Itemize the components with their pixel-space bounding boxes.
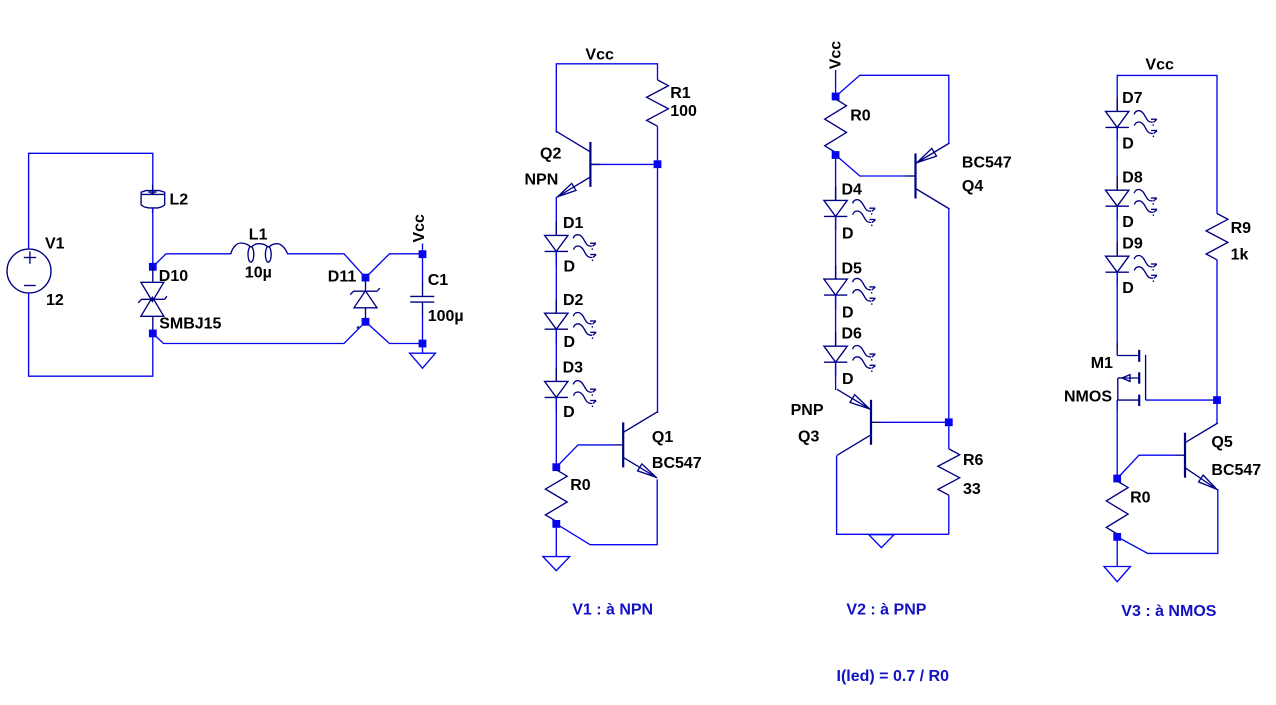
svg-text:Vcc: Vcc bbox=[411, 214, 428, 243]
svg-text:V1 : à NPN: V1 : à NPN bbox=[572, 601, 653, 618]
resistor R6 bbox=[938, 449, 960, 495]
svg-text:Vcc: Vcc bbox=[828, 41, 845, 70]
wire D4 to D5 bbox=[835, 216, 837, 279]
svg-text:D: D bbox=[564, 259, 576, 276]
svg-text:100: 100 bbox=[670, 103, 697, 120]
svg-text:R1: R1 bbox=[670, 85, 691, 102]
svg-text:D6: D6 bbox=[842, 326, 863, 343]
wire D11 bottom node to C1 bottom node bbox=[366, 322, 423, 344]
wire Q3 base to R6 node bbox=[881, 421, 949, 423]
svg-text:D3: D3 bbox=[563, 360, 584, 377]
wire Q5 emitter to bottom rail bbox=[1117, 489, 1218, 553]
wire D6 to Q3 emitter bbox=[835, 362, 837, 390]
wire Vcc node to Q4 emitter bbox=[836, 75, 949, 143]
LED D8 bbox=[1116, 176, 1118, 190]
node D10 bottom junction bbox=[149, 330, 157, 338]
svg-text:D1: D1 bbox=[563, 215, 584, 232]
svg-text:V2 : à PNP: V2 : à PNP bbox=[846, 602, 926, 619]
svg-text:D2: D2 bbox=[563, 292, 584, 309]
LED D2 bbox=[555, 299, 557, 313]
svg-text:NMOS: NMOS bbox=[1064, 389, 1112, 406]
transistor Q1 bbox=[622, 422, 624, 467]
svg-text:M1: M1 bbox=[1091, 355, 1113, 372]
TVS diode D10 bbox=[152, 267, 154, 283]
svg-text:Q4: Q4 bbox=[962, 178, 983, 195]
node R1/base junction bbox=[654, 160, 662, 168]
node D10 top junction bbox=[149, 263, 157, 271]
wire Q2 base bbox=[590, 163, 657, 165]
wire L2 to D10 node bbox=[152, 208, 154, 267]
svg-text:D: D bbox=[563, 404, 575, 421]
node D11 top junction bbox=[362, 274, 370, 282]
voltage source V1 symbol bbox=[7, 249, 51, 293]
zener diode D11 bbox=[365, 278, 367, 292]
wire M1 gate to node bbox=[1146, 399, 1217, 401]
node R6 junction bbox=[945, 418, 953, 426]
transistor Q2 bbox=[589, 142, 591, 187]
resistor R1 bbox=[647, 80, 669, 126]
svg-text:10µ: 10µ bbox=[245, 265, 272, 282]
svg-text:L1: L1 bbox=[249, 226, 268, 243]
resistor R0 (PNP) bbox=[825, 99, 847, 153]
node gate junction bbox=[1213, 396, 1221, 404]
node R0 top junction (PNP) bbox=[832, 93, 840, 101]
svg-text:D8: D8 bbox=[1122, 170, 1143, 187]
svg-text:R6: R6 bbox=[963, 452, 984, 469]
inductor L1 bbox=[231, 243, 251, 254]
resistor R0 (NPN) bbox=[545, 470, 567, 522]
svg-text:NPN: NPN bbox=[525, 171, 559, 188]
wire D8 to D9 bbox=[1116, 206, 1118, 256]
ground (PNP) bbox=[869, 535, 894, 548]
wire Vcc rail (NMOS) bbox=[1117, 75, 1217, 213]
svg-text:100µ: 100µ bbox=[428, 308, 464, 325]
svg-text:Q2: Q2 bbox=[540, 145, 561, 162]
wire gate node to Q5 collector bbox=[1216, 400, 1218, 424]
LED D5 bbox=[835, 265, 837, 279]
wire R6 top stub bbox=[948, 422, 950, 449]
wire Q2 emitter to D1 bbox=[555, 197, 557, 236]
wire to ground (NMOS) bbox=[1116, 537, 1118, 567]
LED D4 bbox=[835, 186, 837, 200]
wire to ground (left) bbox=[422, 344, 424, 354]
wire Vcc label stub bbox=[422, 244, 424, 255]
wire V1 bottom loop to D10 bottom node bbox=[29, 293, 153, 376]
svg-text:L2: L2 bbox=[170, 192, 189, 209]
svg-text:D5: D5 bbox=[842, 260, 863, 277]
wire D10 node to L1 bbox=[153, 254, 231, 267]
wire L1 to D11 top node bbox=[288, 254, 366, 278]
ferrite bead L2 bbox=[141, 191, 165, 195]
svg-text:Q1: Q1 bbox=[652, 429, 673, 446]
LED D3 bbox=[555, 367, 557, 381]
svg-text:V1: V1 bbox=[45, 235, 65, 252]
svg-text:Q5: Q5 bbox=[1211, 434, 1232, 451]
node C1 bottom junction bbox=[419, 340, 427, 348]
wire Vcc node to C1 bbox=[422, 254, 424, 283]
LED D1 bbox=[555, 221, 557, 235]
wire D3 to R0 node bbox=[555, 397, 557, 467]
svg-text:D: D bbox=[842, 371, 854, 388]
wire R0 node to Q5 base bbox=[1117, 455, 1175, 478]
wire D2 to D3 bbox=[555, 329, 557, 381]
svg-text:R0: R0 bbox=[1130, 490, 1151, 507]
svg-text:12: 12 bbox=[46, 292, 64, 309]
svg-text:I(led) = 0.7 / R0: I(led) = 0.7 / R0 bbox=[837, 668, 950, 685]
transistor Q3 bbox=[870, 400, 872, 445]
svg-text:D: D bbox=[842, 226, 854, 243]
svg-text:R9: R9 bbox=[1231, 220, 1252, 237]
wire Q4 collector rail bbox=[948, 209, 950, 422]
svg-text:BC547: BC547 bbox=[652, 455, 702, 472]
LED D6 bbox=[835, 332, 837, 346]
wire D9 to M1 drain bbox=[1116, 272, 1118, 350]
wire to ground (NPN) bbox=[555, 524, 557, 557]
wire R0 node to Q1 base bbox=[556, 445, 613, 467]
tiny mark near D11 bbox=[357, 326, 359, 328]
svg-text:D: D bbox=[1122, 280, 1134, 297]
svg-text:BC547: BC547 bbox=[1211, 462, 1261, 479]
svg-text:SMBJ15: SMBJ15 bbox=[159, 316, 221, 333]
node R0 bottom junction (NPN) bbox=[552, 520, 560, 528]
transistor Q4 bbox=[914, 154, 916, 199]
svg-text:1k: 1k bbox=[1231, 247, 1249, 264]
wire M1 source to R0 bbox=[1116, 400, 1118, 478]
svg-text:33: 33 bbox=[963, 481, 981, 498]
transistor Q5 bbox=[1184, 433, 1186, 478]
ground (NMOS) bbox=[1104, 567, 1130, 582]
svg-text:D: D bbox=[1122, 135, 1134, 152]
svg-text:R0: R0 bbox=[850, 107, 871, 124]
wire Q1 emitter to bottom rail bbox=[556, 479, 657, 544]
svg-text:D: D bbox=[564, 334, 576, 351]
wire R0 node to Q4 base bbox=[836, 155, 906, 176]
node R0 bottom junction (PNP) bbox=[832, 151, 840, 159]
capacitor C1 bbox=[422, 283, 424, 297]
svg-text:Q3: Q3 bbox=[798, 428, 819, 445]
wire C1 to bottom node bbox=[422, 315, 424, 344]
svg-text:Vcc: Vcc bbox=[1145, 57, 1174, 74]
node R0 top junction (NPN) bbox=[552, 463, 560, 471]
svg-text:V3 : à NMOS: V3 : à NMOS bbox=[1121, 603, 1216, 620]
svg-text:PNP: PNP bbox=[791, 402, 824, 419]
wire D7 to D8 bbox=[1116, 127, 1118, 190]
wire R6 to bottom rail bbox=[948, 495, 950, 534]
node D11 bottom junction bbox=[362, 318, 370, 326]
wire R0 node to D4 bbox=[835, 155, 837, 200]
svg-text:D: D bbox=[842, 304, 854, 321]
svg-text:D7: D7 bbox=[1122, 90, 1143, 107]
wire D11 node to Vcc node bbox=[366, 254, 423, 278]
node R0 top junction (NMOS) bbox=[1113, 475, 1121, 483]
svg-text:BC547: BC547 bbox=[962, 154, 1012, 171]
svg-text:D11: D11 bbox=[328, 268, 357, 285]
wire D1 to D2 bbox=[555, 251, 557, 313]
wire D10 to bottom rail to D11 bottom node bbox=[153, 322, 366, 344]
wire V1 top loop to L2 bbox=[29, 153, 153, 249]
svg-text:C1: C1 bbox=[428, 272, 449, 289]
wire Vcc stub (PNP) bbox=[835, 70, 837, 97]
LED D7 bbox=[1116, 97, 1118, 111]
svg-text:R0: R0 bbox=[570, 477, 591, 494]
node R0 bottom junction (NMOS) bbox=[1113, 533, 1121, 541]
svg-text:Vcc: Vcc bbox=[585, 47, 614, 64]
wire Q3 collector to bottom rail bbox=[837, 456, 949, 535]
resistor R9 bbox=[1206, 214, 1228, 260]
resistor R0 (NMOS) bbox=[1106, 481, 1128, 534]
LED D9 bbox=[1116, 242, 1118, 256]
svg-text:D4: D4 bbox=[842, 182, 863, 199]
ground (left) bbox=[410, 353, 436, 368]
wire Vcc rail (NPN) bbox=[556, 64, 657, 133]
wire R1 to collector rail bbox=[657, 126, 659, 413]
wire D5 to D6 bbox=[835, 295, 837, 346]
ground (NPN) bbox=[543, 557, 570, 571]
node Vcc junction (left) bbox=[419, 250, 427, 258]
svg-text:D: D bbox=[1122, 214, 1134, 231]
svg-text:D9: D9 bbox=[1122, 236, 1143, 253]
wire R9 to gate node bbox=[1216, 260, 1218, 400]
nmos M1 bbox=[1116, 343, 1118, 356]
